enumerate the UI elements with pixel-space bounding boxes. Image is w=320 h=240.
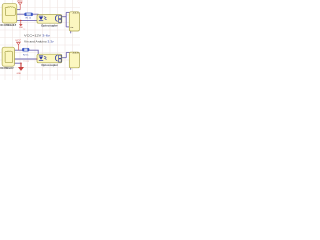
- svg-text:TX RX: TX RX: [23, 61, 30, 63]
- svg-text:GND: GND: [17, 73, 22, 75]
- svg-text:VCC=12V 3-6v: VCC=12V 3-6v: [24, 33, 51, 37]
- svg-text:R2 1k: R2 1k: [23, 55, 29, 57]
- svg-text:-C1-C: -C1-C: [72, 13, 80, 15]
- svg-text:IC1 ATMEGA8-P: IC1 ATMEGA8-P: [0, 24, 16, 27]
- svg-text:Optocoupler: Optocoupler: [41, 64, 58, 67]
- svg-text:Optocoupler: Optocoupler: [41, 24, 58, 27]
- svg-text:IC2 ATMEGA8-P: IC2 ATMEGA8-P: [0, 67, 13, 70]
- svg-text:-C1-C: -C1-C: [72, 53, 80, 55]
- svg-text:Vin and Arduino 3.3v: Vin and Arduino 3.3v: [24, 40, 54, 44]
- svg-text:R1 1k: R1 1k: [26, 17, 32, 19]
